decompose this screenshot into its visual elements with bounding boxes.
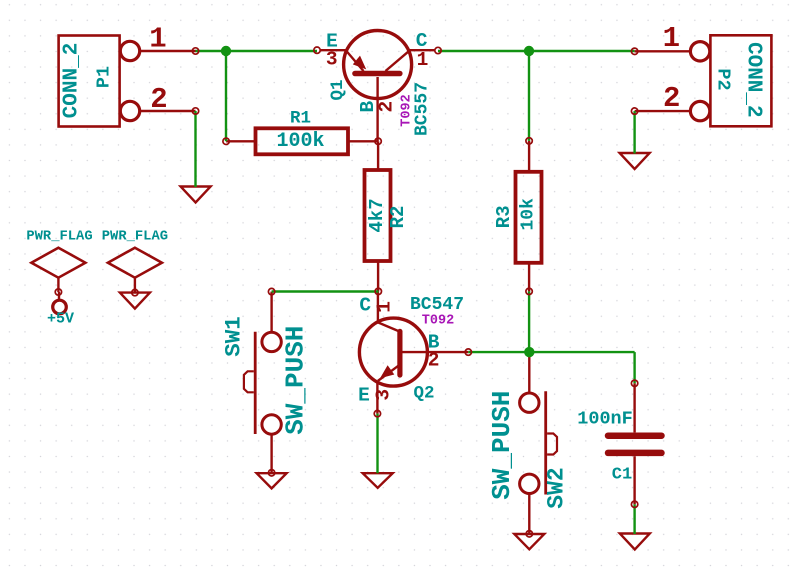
- svg-text:+5V: +5V: [47, 311, 74, 328]
- svg-text:3: 3: [326, 49, 338, 71]
- svg-text:2: 2: [663, 82, 680, 115]
- svg-text:1: 1: [417, 49, 429, 71]
- svg-text:C1: C1: [612, 466, 632, 485]
- svg-text:R3: R3: [493, 205, 515, 228]
- svg-text:PWR_FLAG: PWR_FLAG: [102, 229, 168, 244]
- svg-text:C: C: [359, 295, 371, 317]
- svg-text:R2: R2: [387, 206, 409, 229]
- svg-text:100k: 100k: [276, 130, 324, 153]
- svg-text:2: 2: [375, 101, 397, 113]
- svg-text:10k: 10k: [519, 198, 539, 231]
- svg-text:P1: P1: [94, 66, 115, 88]
- svg-text:E: E: [358, 384, 370, 406]
- svg-text:1: 1: [374, 301, 396, 313]
- svg-text:BC547: BC547: [410, 295, 464, 315]
- svg-text:1: 1: [663, 22, 680, 55]
- svg-text:2: 2: [428, 350, 440, 372]
- svg-text:SW2: SW2: [543, 467, 569, 508]
- svg-text:PWR_FLAG: PWR_FLAG: [26, 230, 92, 245]
- svg-text:SW_PUSH: SW_PUSH: [281, 326, 311, 435]
- svg-text:R1: R1: [290, 109, 311, 129]
- svg-text:Q2: Q2: [413, 384, 434, 404]
- svg-text:SW_PUSH: SW_PUSH: [487, 391, 517, 500]
- svg-text:SW1: SW1: [221, 316, 247, 357]
- svg-text:100nF: 100nF: [577, 409, 633, 430]
- svg-text:4k7: 4k7: [366, 198, 388, 232]
- svg-text:P2: P2: [713, 68, 734, 90]
- svg-text:2: 2: [150, 83, 167, 116]
- svg-text:1: 1: [149, 23, 166, 56]
- svg-text:T092: T092: [422, 314, 454, 329]
- svg-text:3: 3: [373, 389, 395, 401]
- svg-text:Q1: Q1: [328, 79, 348, 100]
- svg-text:CONN_2: CONN_2: [741, 42, 764, 118]
- svg-text:CONN_2: CONN_2: [61, 43, 84, 119]
- svg-text:BC557: BC557: [412, 82, 432, 136]
